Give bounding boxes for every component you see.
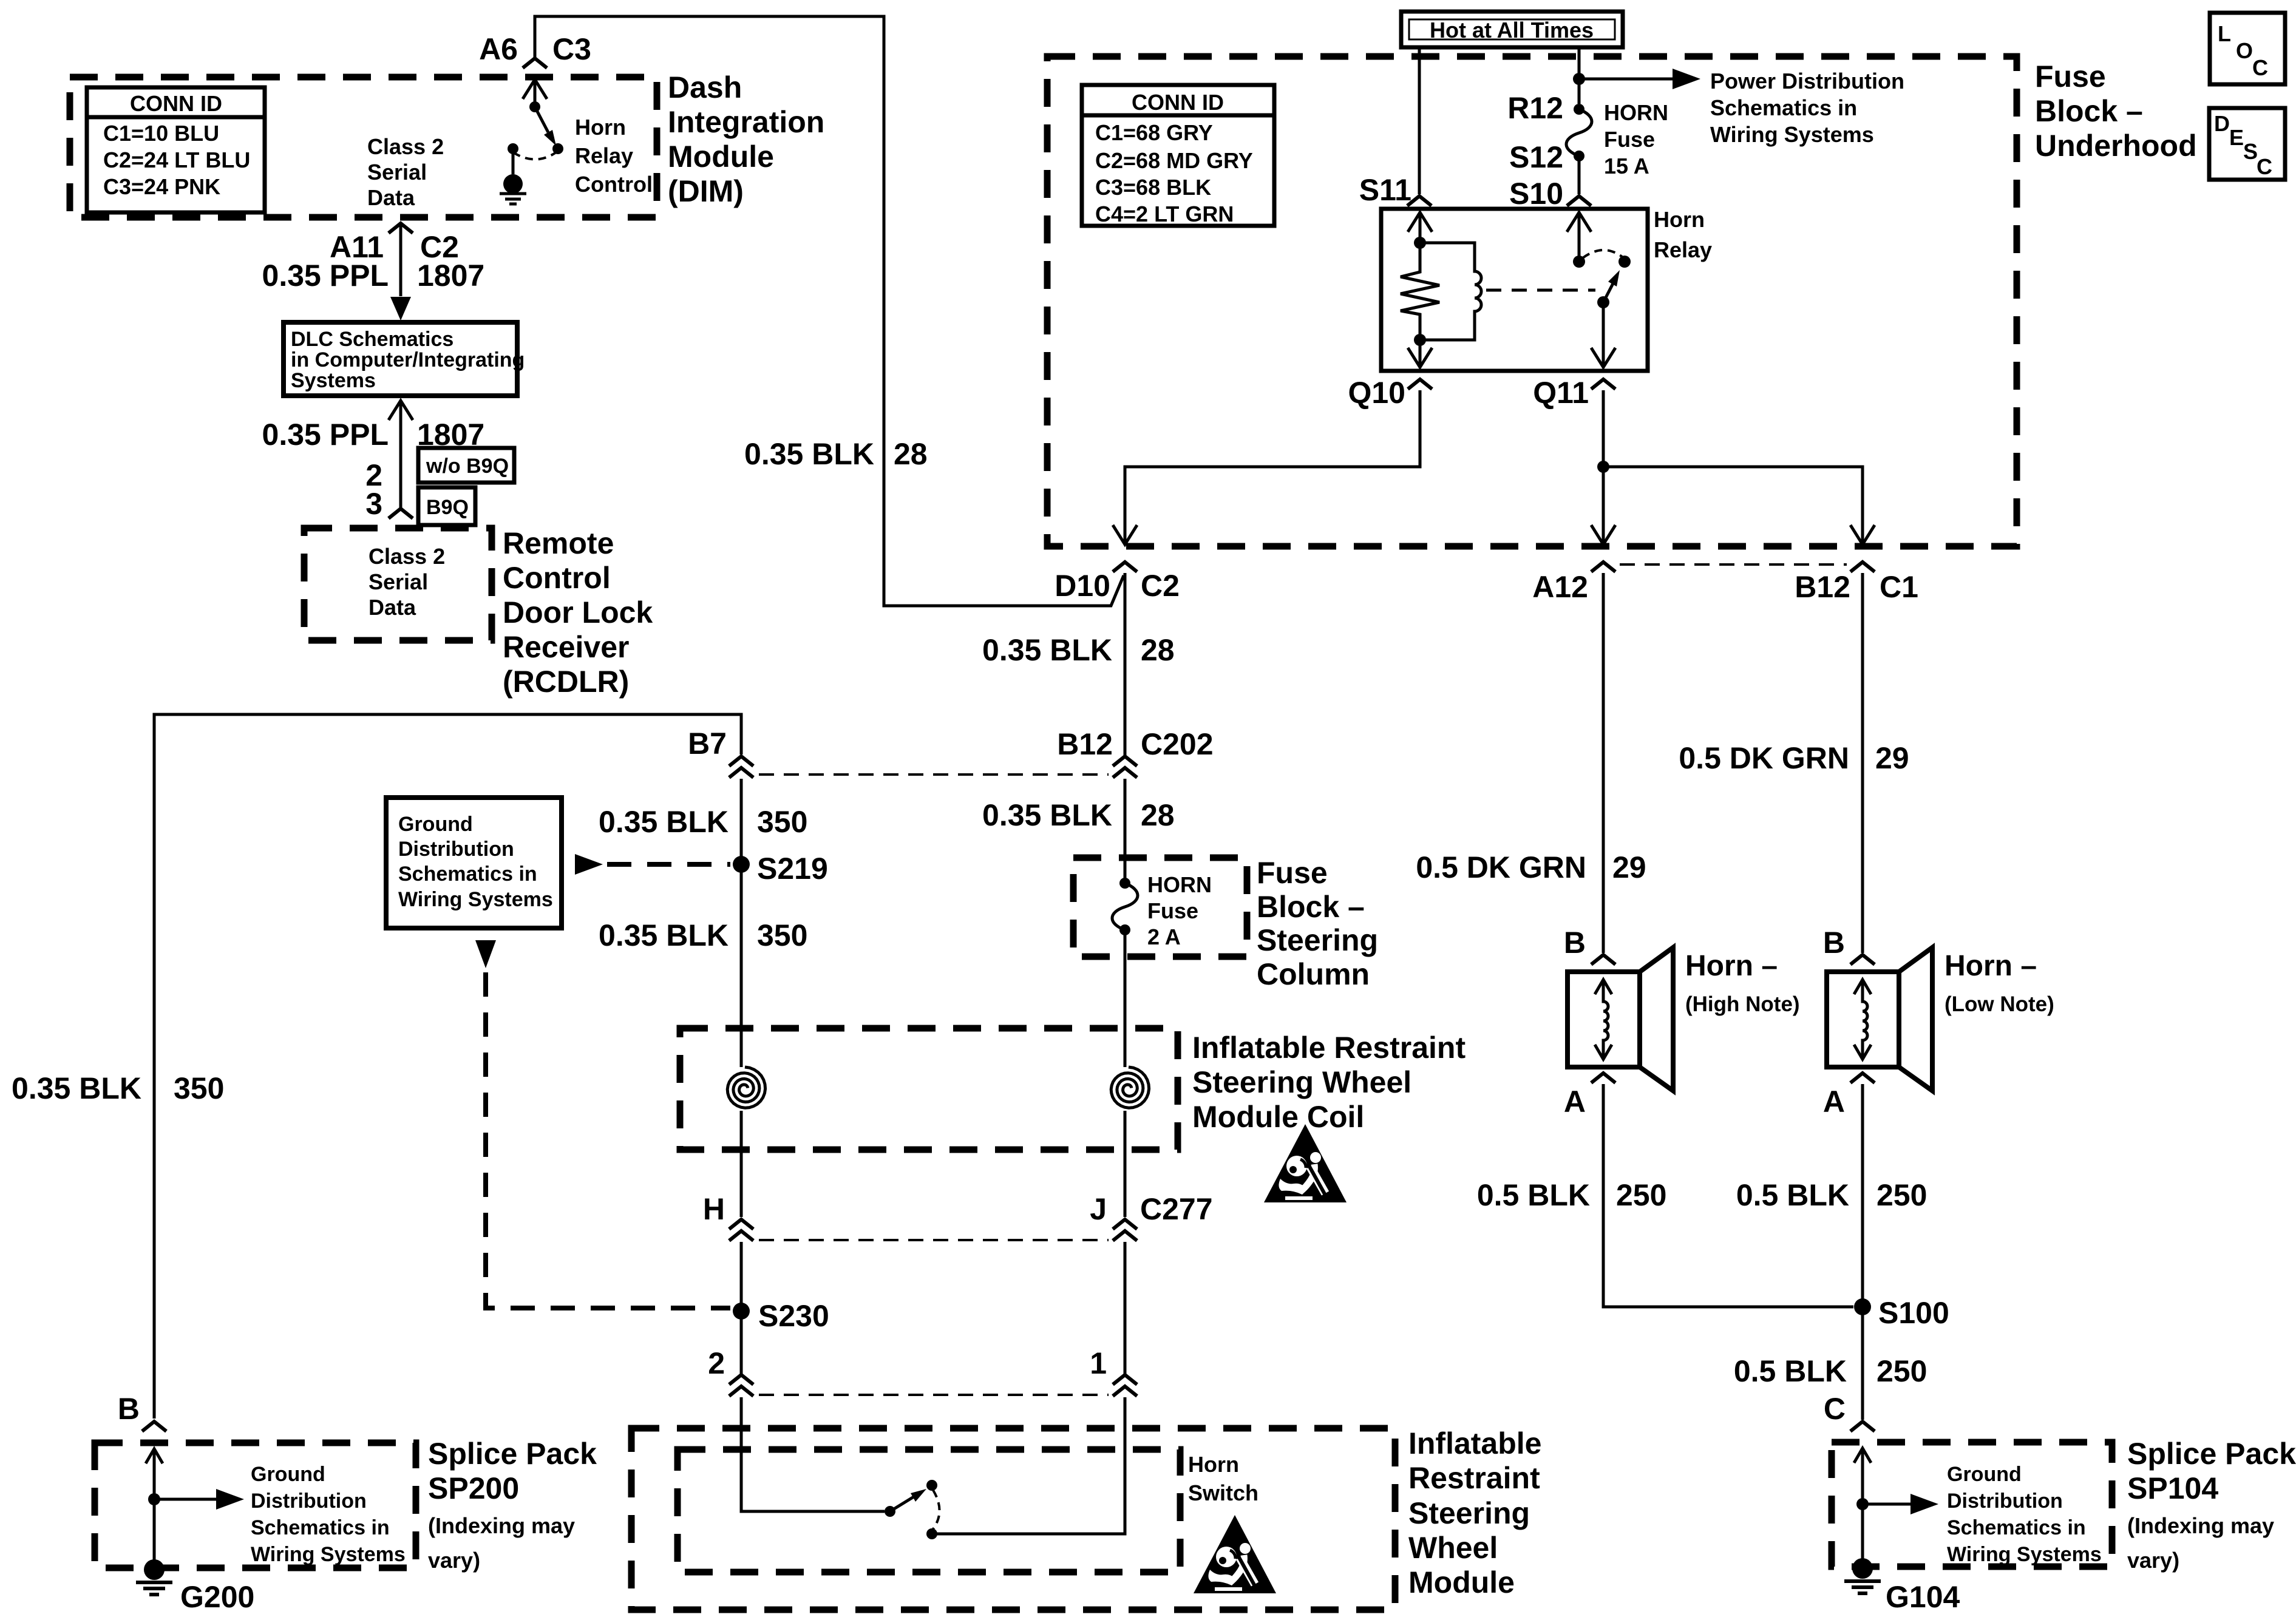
svg-text:J: J <box>1090 1192 1107 1226</box>
svg-text:S219: S219 <box>757 852 828 886</box>
svg-text:Serial: Serial <box>369 569 428 594</box>
wire up-arrow below DLC box <box>389 401 413 420</box>
svg-text:Wiring Systems: Wiring Systems <box>251 1543 406 1566</box>
coil side arrow up <box>1408 212 1432 232</box>
svg-text:Horn: Horn <box>575 115 626 140</box>
SIR warning triangle (coil) <box>1264 1124 1347 1202</box>
svg-text:0.5 BLK: 0.5 BLK <box>1477 1178 1590 1212</box>
horn switch dashed arc <box>933 1490 940 1529</box>
svg-text:Fuse: Fuse <box>2035 59 2106 93</box>
top junction dot <box>1414 237 1426 249</box>
svg-text:Fuse: Fuse <box>1147 898 1198 923</box>
wire B7 to S219 to coil box <box>740 779 743 1067</box>
svg-text:Horn –: Horn – <box>1944 950 2037 982</box>
wire B12/C1 to horn 2 <box>1861 573 1864 953</box>
svg-text:Distribution: Distribution <box>251 1490 367 1513</box>
LOC box <box>2210 13 2285 84</box>
wire S12 to S10 <box>1578 156 1581 194</box>
svg-text:C202: C202 <box>1141 727 1214 761</box>
svg-text:(DIM): (DIM) <box>668 174 744 208</box>
svg-text:Class 2: Class 2 <box>369 544 445 569</box>
svg-text:in Computer/Integrating: in Computer/Integrating <box>291 348 525 371</box>
wire A12 to horn 1 <box>1602 573 1605 953</box>
svg-text:Fuse: Fuse <box>1604 127 1655 152</box>
relay coil branch <box>1420 243 1481 340</box>
fuse block steering column dashed box <box>1073 858 1247 957</box>
Dash Integration Module dashed box <box>70 77 657 217</box>
stationary contact dot <box>1573 256 1585 268</box>
wire down with arrow into DLC box <box>399 226 402 296</box>
svg-text:B7: B7 <box>688 727 727 761</box>
svg-text:R12: R12 <box>1507 91 1563 125</box>
splice S230 <box>733 1303 750 1320</box>
svg-text:Relay: Relay <box>575 143 633 168</box>
splice pack SP200 dashed box <box>95 1443 416 1568</box>
horn coil element <box>1863 981 1867 1058</box>
svg-text:(High Note): (High Note) <box>1685 992 1800 1016</box>
svg-text:0.35 BLK: 0.35 BLK <box>599 805 729 839</box>
svg-text:G200: G200 <box>180 1580 254 1614</box>
svg-text:0.35 BLK: 0.35 BLK <box>744 437 874 471</box>
connector A11/C2 <box>389 223 413 233</box>
svg-text:28: 28 <box>1141 633 1175 667</box>
ground G104 <box>1844 1558 1881 1593</box>
svg-text:S12: S12 <box>1509 140 1563 174</box>
DESC box <box>2209 108 2285 180</box>
svg-text:B: B <box>118 1392 140 1426</box>
svg-text:Schematics in: Schematics in <box>251 1516 390 1539</box>
svg-text:1: 1 <box>1090 1346 1107 1380</box>
w/o B9Q box <box>418 448 514 483</box>
svg-text:Control: Control <box>503 561 611 595</box>
ground (horn relay control) <box>500 174 526 204</box>
arrow down from box <box>475 940 496 968</box>
svg-text:(Low Note): (Low Note) <box>1944 992 2054 1016</box>
svg-text:Steering: Steering <box>1257 923 1378 957</box>
svg-text:SP200: SP200 <box>428 1471 519 1505</box>
svg-text:Underhood: Underhood <box>2035 129 2197 163</box>
switch arm with arrowhead <box>535 107 548 132</box>
svg-text:Schematics in: Schematics in <box>1710 95 1857 120</box>
svg-text:C277: C277 <box>1140 1192 1213 1226</box>
arrow up inside SP200 <box>146 1449 163 1463</box>
svg-text:L: L <box>2218 21 2231 46</box>
svg-text:Schematics in: Schematics in <box>1947 1516 2086 1539</box>
inflatable restraint steering wheel module dashed box <box>631 1428 1395 1610</box>
svg-text:A: A <box>1564 1085 1586 1119</box>
horn switch pivot dot <box>885 1506 895 1517</box>
svg-text:28: 28 <box>894 437 928 471</box>
arrow to S219 <box>575 854 603 875</box>
RCDLR dashed box <box>304 528 492 640</box>
svg-text:1807: 1807 <box>417 259 484 293</box>
svg-text:Inflatable Restraint: Inflatable Restraint <box>1192 1031 1466 1065</box>
svg-text:28: 28 <box>1141 798 1175 832</box>
svg-text:C2=68 MD GRY: C2=68 MD GRY <box>1095 148 1253 173</box>
wire fuse to coil box <box>1124 930 1127 1067</box>
svg-text:Horn: Horn <box>1654 207 1705 232</box>
arrow up inside SP104 <box>1854 1448 1871 1463</box>
B9Q box <box>418 487 475 525</box>
svg-text:CONN ID: CONN ID <box>130 91 222 116</box>
fuse block underhood dashed box <box>1047 56 2017 546</box>
svg-text:0.35 BLK: 0.35 BLK <box>599 918 729 952</box>
svg-text:C1=10 BLU: C1=10 BLU <box>103 121 219 146</box>
SIR warning triangle (module) <box>1194 1515 1276 1593</box>
coil spiral right <box>1111 1067 1149 1108</box>
CONN ID table (underhood) <box>1082 85 1274 226</box>
svg-text:DLC Schematics: DLC Schematics <box>291 328 453 351</box>
wire C202 to fuse block <box>1124 779 1127 883</box>
svg-text:D: D <box>2214 111 2230 136</box>
svg-text:350: 350 <box>174 1071 224 1105</box>
moving contact dot <box>1618 256 1631 268</box>
svg-text:0.35 BLK: 0.35 BLK <box>12 1071 141 1105</box>
svg-text:S11: S11 <box>1359 173 1411 207</box>
switch side arrow up <box>1567 212 1591 232</box>
svg-text:C2=24 LT BLU: C2=24 LT BLU <box>103 147 250 172</box>
connector A6/C3 <box>523 58 547 68</box>
svg-text:(Indexing may: (Indexing may <box>2127 1513 2274 1538</box>
svg-text:0.35 BLK: 0.35 BLK <box>982 798 1112 832</box>
wire 2 down to switch <box>741 1397 885 1511</box>
connector D10/C2 <box>1113 562 1137 572</box>
svg-text:Block –: Block – <box>2035 94 2143 128</box>
svg-text:Module Coil: Module Coil <box>1192 1100 1364 1134</box>
wire from A6/C3 up and over to center drop <box>535 16 1124 606</box>
svg-text:Wiring Systems: Wiring Systems <box>398 888 553 911</box>
wire from switch to 1 <box>932 1397 1125 1534</box>
svg-text:C1: C1 <box>1880 570 1918 604</box>
svg-text:vary): vary) <box>2127 1548 2179 1573</box>
switch left contact dot and lead <box>508 143 518 154</box>
svg-text:0.35 BLK: 0.35 BLK <box>982 633 1112 667</box>
wire H to S230 to 2 <box>740 1242 743 1374</box>
svg-text:0.5 DK GRN: 0.5 DK GRN <box>1679 741 1849 775</box>
connector at 3 <box>389 509 413 518</box>
horn relay control switch arrow up <box>523 80 547 99</box>
dashed connector plane C277 <box>759 1239 1109 1241</box>
svg-text:250: 250 <box>1877 1178 1927 1212</box>
svg-text:Switch: Switch <box>1188 1480 1258 1505</box>
svg-text:Distribution: Distribution <box>1947 1490 2063 1513</box>
wire horn2 A down through S100 <box>1861 1084 1864 1420</box>
svg-text:C: C <box>1824 1392 1846 1426</box>
svg-text:Splice Pack: Splice Pack <box>428 1437 597 1471</box>
wire below left spiral <box>740 1111 743 1217</box>
svg-text:H: H <box>703 1192 725 1226</box>
arrow to ground distribution text <box>1863 1503 1912 1506</box>
hot at all times box <box>1401 12 1623 47</box>
svg-text:HORN: HORN <box>1147 872 1212 897</box>
svg-text:S10: S10 <box>1509 177 1563 211</box>
coil spiral left <box>727 1067 765 1108</box>
dashed connector plane C202 left <box>759 773 1109 776</box>
junction dot power distribution <box>1573 73 1585 85</box>
svg-text:Receiver: Receiver <box>503 630 630 664</box>
svg-text:Class 2: Class 2 <box>367 134 444 159</box>
svg-text:G104: G104 <box>1886 1580 1960 1614</box>
ground distribution reference box (middle) <box>386 798 562 928</box>
svg-text:250: 250 <box>1877 1354 1927 1388</box>
wire Q10 to D10 drop <box>1125 390 1420 542</box>
junction dot SP104 <box>1856 1498 1869 1510</box>
svg-text:Ground: Ground <box>251 1463 325 1486</box>
svg-text:Distribution: Distribution <box>398 838 514 861</box>
svg-text:Data: Data <box>367 185 415 210</box>
svg-text:Steering: Steering <box>1408 1496 1530 1530</box>
svg-text:C: C <box>2257 154 2272 179</box>
svg-text:Ground: Ground <box>398 813 473 836</box>
resistor <box>1401 243 1439 340</box>
svg-text:2 A: 2 A <box>1147 924 1181 949</box>
svg-text:vary): vary) <box>428 1548 480 1573</box>
horn switch dashed box <box>678 1449 1180 1572</box>
svg-text:A6: A6 <box>479 32 518 66</box>
svg-text:Restraint: Restraint <box>1408 1461 1540 1495</box>
svg-text:Fuse: Fuse <box>1257 856 1328 890</box>
svg-text:29: 29 <box>1875 741 1909 775</box>
junction dot Q11 branch <box>1597 461 1609 473</box>
wire branch to B12/C1 <box>1603 467 1863 542</box>
svg-text:Horn –: Horn – <box>1685 950 1778 982</box>
svg-text:S230: S230 <box>758 1299 829 1333</box>
svg-text:Module: Module <box>1408 1565 1515 1599</box>
svg-text:B12: B12 <box>1057 727 1113 761</box>
svg-text:Hot at All Times: Hot at All Times <box>1430 18 1594 42</box>
svg-text:C: C <box>2252 55 2268 80</box>
DLC Schematics box <box>284 322 517 396</box>
horn coil element <box>1603 981 1608 1058</box>
wire below right spiral <box>1124 1111 1127 1217</box>
svg-text:w/o B9Q: w/o B9Q <box>426 455 509 478</box>
svg-text:C2: C2 <box>1141 569 1180 603</box>
svg-text:Steering Wheel: Steering Wheel <box>1192 1065 1411 1099</box>
splice S219 <box>733 856 750 873</box>
svg-text:0.35 PPL: 0.35 PPL <box>262 418 389 452</box>
svg-text:B12: B12 <box>1795 570 1850 604</box>
svg-text:29: 29 <box>1612 850 1646 884</box>
svg-text:C3: C3 <box>552 32 591 66</box>
svg-text:3: 3 <box>365 487 382 521</box>
coil down arrow <box>1419 340 1422 364</box>
svg-text:Remote: Remote <box>503 526 614 560</box>
wire J to 1 <box>1124 1242 1127 1374</box>
inflatable restraint steering wheel module coil dashed box <box>680 1028 1178 1150</box>
svg-text:Data: Data <box>369 595 416 620</box>
linkage dashed <box>1486 289 1595 292</box>
svg-text:Door Lock: Door Lock <box>503 595 653 629</box>
wire horn1 A down to S100 run <box>1603 1084 1853 1307</box>
switch top contact dot <box>529 101 540 112</box>
svg-text:Splice Pack: Splice Pack <box>2127 1437 2296 1471</box>
svg-text:250: 250 <box>1616 1178 1666 1212</box>
svg-text:S: S <box>2243 139 2258 164</box>
arrow to ground distribution text <box>154 1498 219 1501</box>
svg-text:C4=2 LT GRN: C4=2 LT GRN <box>1095 202 1234 226</box>
svg-text:SP104: SP104 <box>2127 1471 2218 1505</box>
ground G200 <box>136 1559 172 1595</box>
svg-text:B: B <box>1823 926 1845 960</box>
CONN ID table (DIM) <box>87 87 265 212</box>
svg-text:0.5 BLK: 0.5 BLK <box>1736 1178 1849 1212</box>
dashed connector plane A12-B12 <box>1620 563 1847 566</box>
svg-text:B: B <box>1564 926 1586 960</box>
horn body <box>1567 972 1640 1067</box>
svg-text:C3=24 PNK: C3=24 PNK <box>103 174 220 199</box>
svg-text:Block –: Block – <box>1257 890 1365 924</box>
horn body <box>1827 972 1899 1067</box>
horn switch upper contact dot <box>926 1480 937 1491</box>
svg-text:Dash: Dash <box>668 70 742 104</box>
horn trapezoid bell <box>1640 947 1673 1091</box>
svg-text:O: O <box>2236 38 2253 63</box>
svg-text:Ground: Ground <box>1947 1463 2022 1486</box>
arrow to power distribution schematics <box>1579 78 1674 81</box>
svg-text:Module: Module <box>668 140 774 174</box>
svg-text:A12: A12 <box>1532 570 1588 604</box>
svg-text:E: E <box>2229 125 2244 150</box>
junction dot SP200 <box>148 1493 160 1505</box>
svg-text:D10: D10 <box>1055 569 1110 603</box>
svg-text:Inflatable: Inflatable <box>1408 1426 1541 1460</box>
HORN fuse 2A symbol <box>1119 878 1130 889</box>
wire hot to S11 <box>1418 47 1421 194</box>
svg-text:Systems: Systems <box>291 369 376 392</box>
horn switch lower contact dot <box>926 1528 937 1539</box>
svg-text:350: 350 <box>757 918 807 952</box>
splice S100 <box>1854 1298 1871 1315</box>
wire hot to R12 fuse <box>1578 47 1581 104</box>
svg-text:(Indexing may: (Indexing may <box>428 1513 575 1538</box>
svg-text:Power Distribution: Power Distribution <box>1710 69 1904 93</box>
wire Q11 down and branch <box>1602 390 1605 542</box>
svg-text:Wiring Systems: Wiring Systems <box>1710 122 1874 147</box>
svg-text:0.5 DK GRN: 0.5 DK GRN <box>1416 850 1586 884</box>
svg-text:Relay: Relay <box>1654 237 1712 262</box>
svg-text:S100: S100 <box>1878 1296 1949 1330</box>
svg-text:B9Q: B9Q <box>426 496 469 519</box>
switch lower contact dot <box>552 143 563 154</box>
svg-text:C3=68 BLK: C3=68 BLK <box>1095 175 1211 200</box>
svg-text:Serial: Serial <box>367 160 427 185</box>
svg-text:C1=68 GRY: C1=68 GRY <box>1095 120 1213 145</box>
svg-text:Q11: Q11 <box>1533 376 1589 410</box>
switch down wire and arrow <box>1602 302 1605 364</box>
svg-text:Schematics in: Schematics in <box>398 863 537 886</box>
bottom junction dot <box>1414 334 1426 346</box>
svg-text:0.5 BLK: 0.5 BLK <box>1734 1354 1847 1388</box>
horn switch arm <box>890 1497 914 1511</box>
svg-text:350: 350 <box>757 805 807 839</box>
splice pack SP104 dashed box <box>1832 1442 2112 1567</box>
svg-text:HORN: HORN <box>1604 100 1668 125</box>
svg-text:15 A: 15 A <box>1604 154 1649 178</box>
svg-text:Horn: Horn <box>1188 1452 1239 1477</box>
switch dashed arc <box>513 152 556 160</box>
wire inverted U from B up over to B7 <box>154 714 741 1419</box>
svg-text:Integration: Integration <box>668 105 824 139</box>
dashed connector plane 2-1 <box>759 1394 1109 1396</box>
svg-text:CONN ID: CONN ID <box>1132 90 1224 115</box>
horn trapezoid bell <box>1899 947 1932 1091</box>
wire down from D10 <box>1124 573 1127 755</box>
svg-text:A: A <box>1823 1085 1845 1119</box>
svg-text:Control: Control <box>575 172 653 197</box>
relay switch dashed arc <box>1583 250 1622 258</box>
svg-text:Wiring Systems: Wiring Systems <box>1947 1543 2102 1566</box>
svg-text:Q10: Q10 <box>1348 376 1405 410</box>
svg-text:2: 2 <box>708 1346 725 1380</box>
svg-text:Wheel: Wheel <box>1408 1531 1498 1565</box>
svg-text:Column: Column <box>1257 957 1370 991</box>
svg-text:(RCDLR): (RCDLR) <box>503 665 629 699</box>
relay switch arm <box>1597 296 1609 308</box>
svg-text:0.35 PPL: 0.35 PPL <box>262 259 389 293</box>
